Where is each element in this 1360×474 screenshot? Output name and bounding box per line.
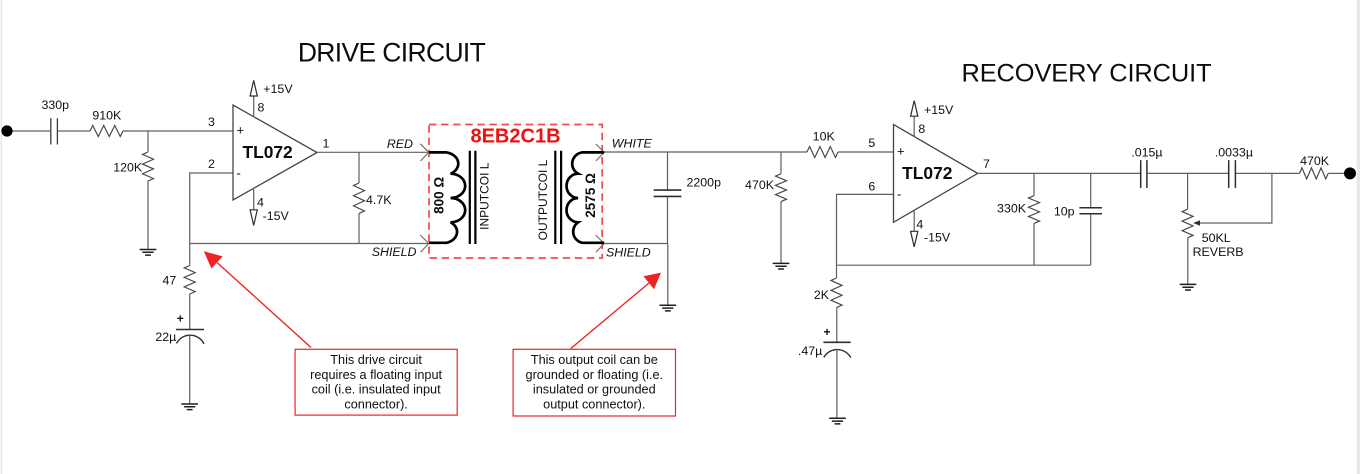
svg-text:-15V: -15V bbox=[263, 209, 290, 223]
terminal arrow bottom-right bbox=[596, 235, 604, 252]
wire 10p to bottom rail bbox=[1090, 214, 1092, 265]
svg-text:output connector).: output connector). bbox=[543, 398, 645, 412]
svg-text:+15V: +15V bbox=[263, 82, 293, 96]
wire 120K to ground bbox=[147, 181, 149, 250]
pot wiper wire bbox=[1199, 173, 1272, 223]
svg-text:47: 47 bbox=[163, 273, 177, 287]
resistor 470K (input of recovery) bbox=[776, 174, 787, 202]
wire 10p branch top bbox=[1090, 173, 1092, 207]
wire pin 7 output rail bbox=[978, 172, 1140, 174]
wire 470K branch bbox=[780, 152, 782, 174]
svg-text:RED: RED bbox=[387, 137, 413, 151]
resistor 120K bbox=[143, 152, 154, 181]
callout arrow 2 bbox=[571, 273, 661, 349]
resistor 330K bbox=[1029, 196, 1040, 224]
wire pin 2 bbox=[190, 173, 233, 244]
svg-text:grounded or floating (i.e.: grounded or floating (i.e. bbox=[526, 368, 664, 382]
op-amp U1 TL072 bbox=[233, 105, 317, 200]
wire pin 6 bbox=[837, 194, 894, 265]
svg-text:TL072: TL072 bbox=[902, 163, 952, 183]
svg-text:OUTPUTCOI L: OUTPUTCOI L bbox=[536, 159, 550, 240]
wire 470K to ground bbox=[780, 202, 782, 264]
svg-text:RECOVERY CIRCUIT: RECOVERY CIRCUIT bbox=[961, 60, 1211, 88]
wire C to resistor 910K bbox=[58, 130, 90, 132]
wire 910K to op-amp pin 3 bbox=[123, 130, 233, 132]
svg-text:5: 5 bbox=[868, 136, 875, 150]
svg-text:330p: 330p bbox=[42, 98, 70, 112]
svg-text:-: - bbox=[237, 166, 241, 181]
svg-text:470K: 470K bbox=[745, 178, 775, 192]
svg-text:10K: 10K bbox=[813, 129, 836, 143]
pin 8 stub bbox=[253, 96, 255, 117]
resistor 910K bbox=[90, 126, 123, 137]
input coil winding bbox=[429, 152, 465, 242]
svg-text:1: 1 bbox=[323, 137, 330, 151]
svg-text:2200p: 2200p bbox=[687, 176, 722, 190]
svg-text:910K: 910K bbox=[92, 108, 122, 122]
capacitor .47u bbox=[823, 342, 850, 357]
svg-text:10p: 10p bbox=[1054, 205, 1075, 219]
svg-text:4.7K: 4.7K bbox=[366, 193, 392, 207]
potentiometer 50KL body bbox=[1182, 209, 1193, 238]
svg-text:-15V: -15V bbox=[924, 231, 951, 245]
svg-text:SHIELD: SHIELD bbox=[606, 246, 651, 260]
wire shield to 47 bbox=[189, 244, 191, 266]
wire .0033u to 470K bbox=[1236, 172, 1300, 174]
svg-text:connector).: connector). bbox=[344, 398, 407, 412]
left page edge line bbox=[1, 0, 2, 474]
wire 22u to ground bbox=[189, 335, 191, 404]
capacitor .0033u bbox=[1229, 160, 1236, 188]
terminal arrow top-left bbox=[420, 144, 429, 161]
svg-text:8: 8 bbox=[258, 101, 265, 115]
wire 4.7K to shield rail bbox=[358, 214, 360, 244]
svg-text:330K: 330K bbox=[997, 201, 1027, 215]
input terminal dot bbox=[1, 125, 12, 136]
ground (120K) bbox=[140, 250, 157, 256]
shield rail wire (right) bbox=[604, 243, 667, 245]
pot wiper arrowhead bbox=[1193, 220, 1200, 225]
capacitor 2200p bbox=[654, 190, 682, 196]
shield rail wire (left) bbox=[190, 243, 429, 245]
capacitor 330p bbox=[51, 118, 58, 144]
svg-text:INPUTCOI L: INPUTCOI L bbox=[478, 162, 492, 230]
-15V arrow (U1) bbox=[250, 210, 257, 226]
svg-text:+15V: +15V bbox=[924, 103, 954, 117]
wire pin 1 to transformer bbox=[317, 151, 429, 153]
resistor 47 bbox=[184, 266, 195, 295]
pin 4 stub bbox=[253, 188, 255, 210]
svg-text:470K: 470K bbox=[1300, 154, 1330, 168]
callout arrow 1 bbox=[204, 251, 311, 347]
callout box 2 bbox=[513, 349, 675, 416]
wire 470K to output dot bbox=[1328, 172, 1344, 174]
svg-text:+: + bbox=[824, 325, 831, 339]
wire 330K branch bbox=[1033, 173, 1035, 195]
resistor 470K (output) bbox=[1300, 168, 1329, 179]
wire 2200p to shield rail bbox=[667, 197, 669, 244]
resistor 10K bbox=[807, 147, 838, 158]
svg-text:8EB2C1B: 8EB2C1B bbox=[470, 126, 560, 148]
input coil core bbox=[470, 151, 476, 244]
svg-text:+: + bbox=[177, 311, 184, 325]
ground (22u) bbox=[181, 404, 198, 410]
svg-text:.0033µ: .0033µ bbox=[1215, 145, 1253, 159]
+15V arrow (U1) bbox=[250, 80, 257, 96]
wire node to 4.7K bbox=[358, 152, 360, 183]
svg-text:-: - bbox=[897, 186, 901, 201]
output terminal dot bbox=[1344, 167, 1356, 179]
terminal arrow top-right bbox=[596, 144, 604, 161]
capacitor .015u bbox=[1141, 160, 1147, 188]
wire pot branch bbox=[1187, 173, 1189, 209]
svg-text:7: 7 bbox=[983, 157, 990, 171]
output coil winding bbox=[567, 152, 605, 242]
svg-text:2: 2 bbox=[208, 157, 215, 171]
wire 2200p branch top bbox=[667, 152, 669, 189]
svg-text:4: 4 bbox=[916, 217, 923, 231]
wire 2K to .47u bbox=[836, 308, 838, 343]
svg-text:6: 6 bbox=[868, 179, 875, 193]
wire .47u to ground bbox=[836, 349, 838, 418]
svg-text:This output coil can be: This output coil can be bbox=[531, 353, 658, 367]
ground (shield) bbox=[660, 305, 677, 311]
capacitor 10p bbox=[1079, 208, 1102, 214]
resistor 4.7K bbox=[354, 183, 365, 213]
ground (pot) bbox=[1180, 284, 1197, 290]
svg-text:120K: 120K bbox=[113, 160, 143, 174]
node at 120K tap bbox=[147, 131, 149, 152]
ground (470K) bbox=[773, 263, 790, 269]
svg-text:4: 4 bbox=[257, 196, 264, 210]
bottom feedback rail bbox=[837, 264, 1091, 266]
ground (.47u) bbox=[829, 418, 846, 424]
svg-text:requires a floating input: requires a floating input bbox=[310, 368, 442, 382]
wire 330K to bottom rail bbox=[1033, 223, 1035, 265]
wire white rail bbox=[604, 151, 807, 153]
wire pot to ground bbox=[1187, 238, 1189, 285]
svg-text:DRIVE CIRCUIT: DRIVE CIRCUIT bbox=[298, 38, 486, 68]
svg-text:+: + bbox=[897, 144, 905, 159]
wire shield to ground bbox=[667, 244, 669, 306]
svg-text:SHIELD: SHIELD bbox=[372, 245, 417, 259]
svg-text:2K: 2K bbox=[814, 288, 830, 302]
svg-text:8: 8 bbox=[918, 122, 925, 136]
wire 10K to pin 5 bbox=[838, 151, 894, 153]
transformer dashed boundary bbox=[429, 125, 602, 259]
svg-text:22µ: 22µ bbox=[155, 330, 176, 344]
svg-text:insulated or grounded: insulated or grounded bbox=[533, 383, 656, 397]
pin 4 stub (U2) bbox=[913, 210, 915, 231]
wire input to C 330p bbox=[13, 130, 51, 132]
svg-text:+: + bbox=[237, 123, 245, 138]
pin 8 stub (U2) bbox=[913, 116, 915, 137]
capacitor 22u bbox=[176, 330, 204, 344]
callout box 1 bbox=[295, 349, 457, 415]
svg-text:This drive circuit: This drive circuit bbox=[330, 353, 422, 367]
wire rail to 2K bbox=[836, 265, 838, 278]
terminal arrow bottom-left bbox=[420, 235, 429, 252]
wire .015u to .0033u bbox=[1148, 172, 1228, 174]
-15V arrow (U2) bbox=[911, 231, 918, 247]
svg-text:3: 3 bbox=[208, 115, 215, 129]
resistor 2K bbox=[831, 278, 842, 308]
svg-text:.015µ: .015µ bbox=[1131, 145, 1162, 159]
svg-text:800 Ω: 800 Ω bbox=[432, 177, 447, 214]
svg-text:WHITE: WHITE bbox=[612, 137, 653, 151]
right page edge strip bbox=[1357, 0, 1360, 474]
svg-text:coil (i.e. insulated input: coil (i.e. insulated input bbox=[312, 383, 442, 397]
+15V arrow (U2) bbox=[911, 101, 918, 117]
svg-text:.47µ: .47µ bbox=[798, 344, 822, 358]
output coil core bbox=[555, 151, 561, 244]
svg-text:TL072: TL072 bbox=[242, 142, 292, 162]
op-amp U2 TL072 bbox=[894, 125, 978, 223]
wire 47 to 22u bbox=[189, 294, 191, 329]
svg-text:50KL: 50KL bbox=[1202, 231, 1231, 245]
svg-text:2575 Ω: 2575 Ω bbox=[583, 173, 598, 218]
svg-text:REVERB: REVERB bbox=[1193, 245, 1244, 259]
